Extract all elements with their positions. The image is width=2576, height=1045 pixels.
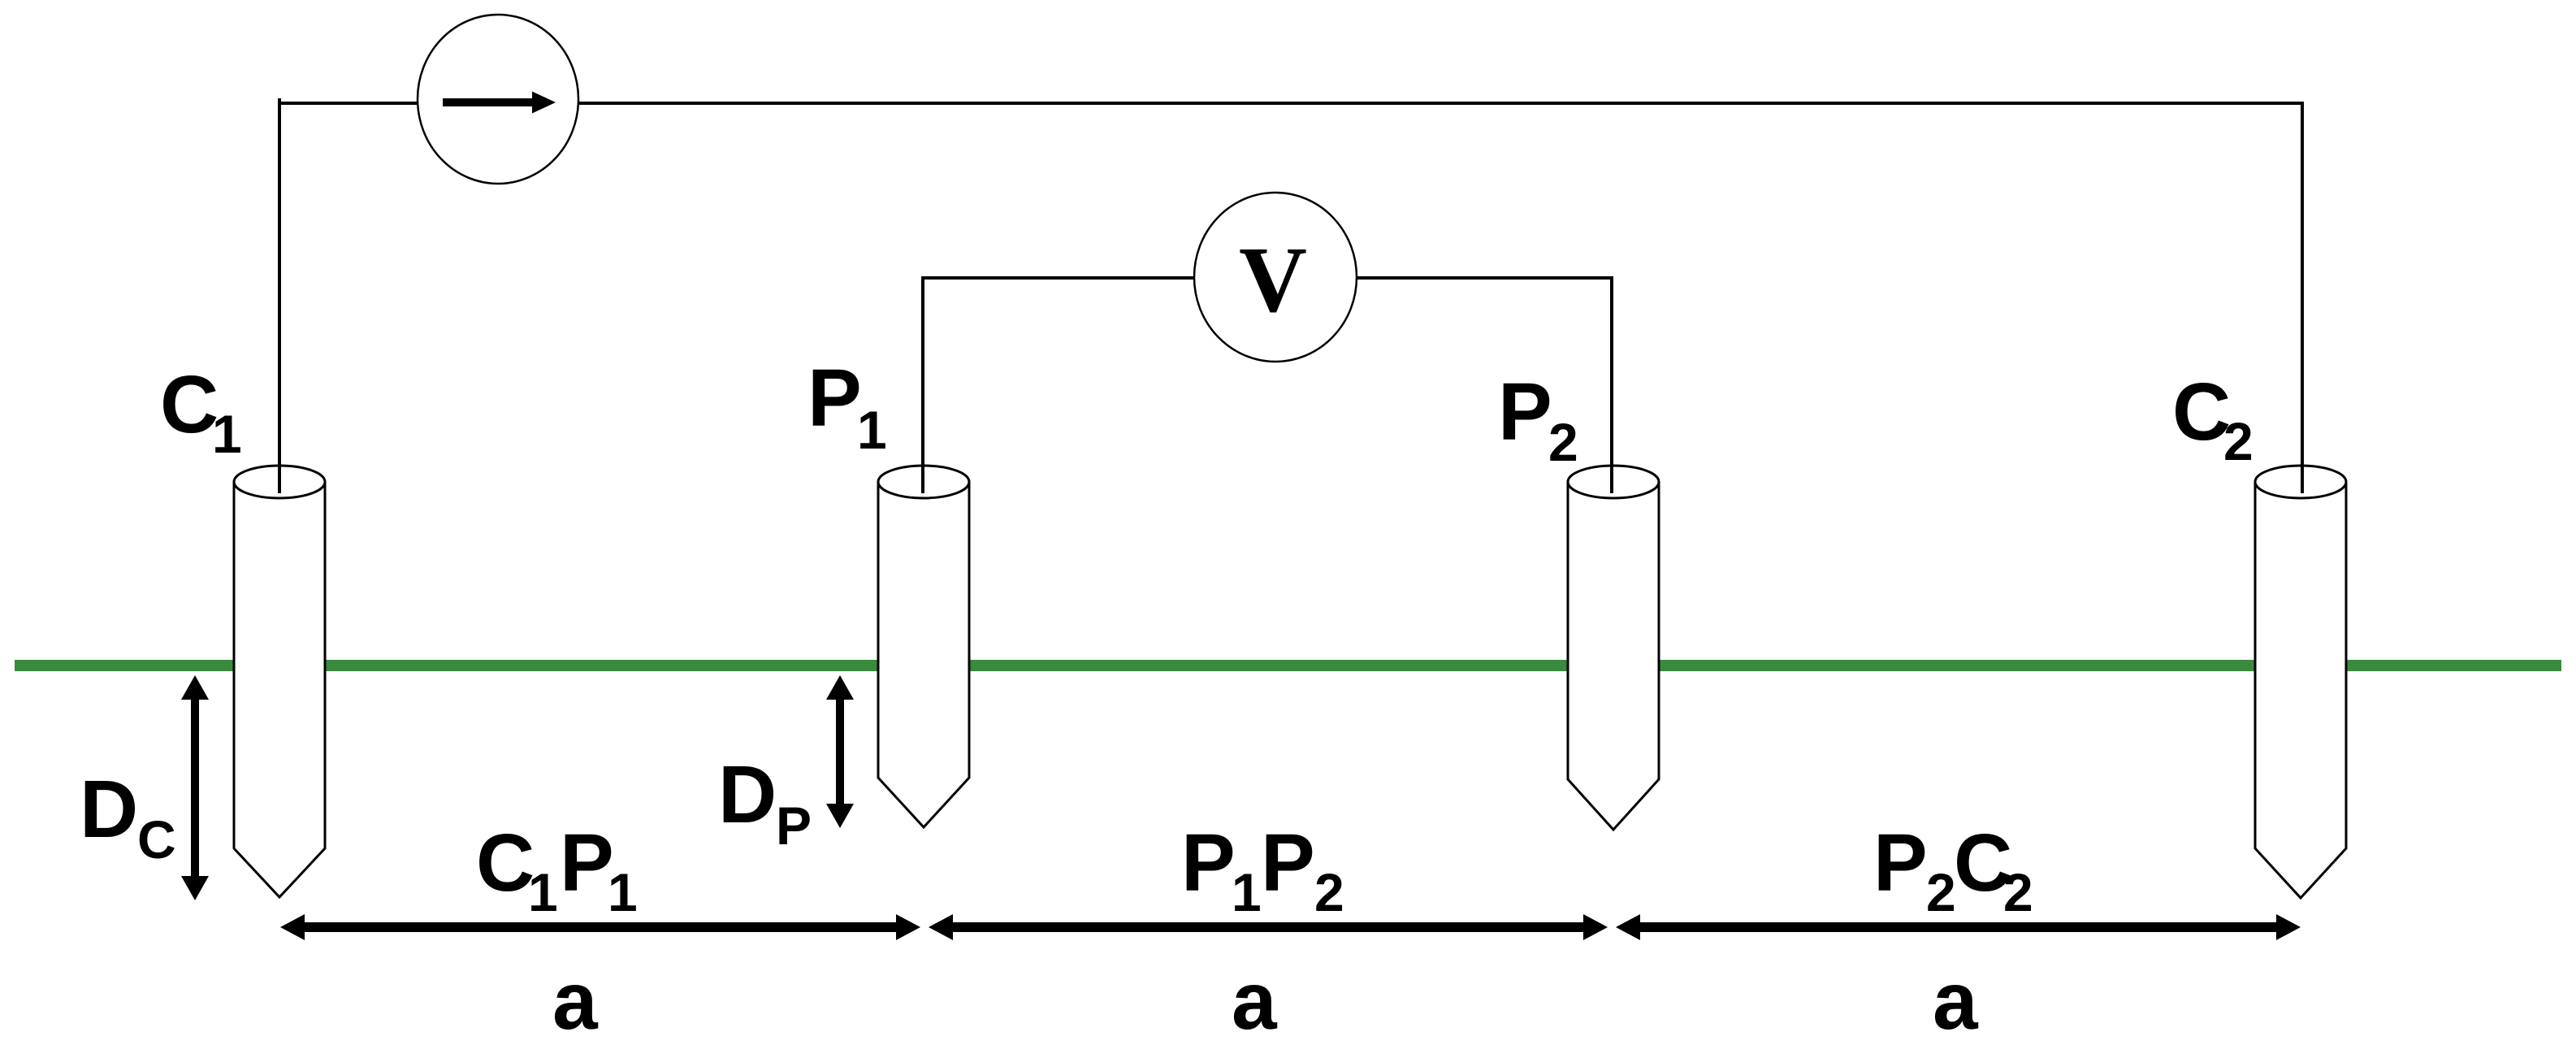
svg-text:1: 1 <box>528 862 558 922</box>
svg-text:1: 1 <box>1232 862 1262 922</box>
svg-text:C: C <box>160 359 219 450</box>
svg-text:2: 2 <box>1548 412 1578 472</box>
voltmeter circle U1 <box>1194 193 1357 362</box>
electrode C2 (current electrode, cylinder with tip) <box>2255 466 2346 898</box>
svg-text:a: a <box>552 956 599 1045</box>
ground / soil surface line <box>15 660 2561 671</box>
svg-text:2: 2 <box>1926 862 1956 922</box>
label C1 <box>160 359 242 464</box>
svg-text:2: 2 <box>1314 862 1344 922</box>
label P2C2 <box>1873 817 2033 922</box>
svg-text:1: 1 <box>857 400 887 460</box>
electrode P1 (potential electrode, cylinder with tip) <box>878 466 969 827</box>
label P1 <box>807 353 887 460</box>
svg-text:2: 2 <box>2003 862 2033 922</box>
current source circle <box>418 15 578 184</box>
label DP <box>718 749 812 856</box>
svg-text:C: C <box>2172 366 2231 457</box>
current direction arrow <box>443 92 556 114</box>
wire voltmeter to P2 <box>1356 278 1612 493</box>
svg-text:P: P <box>1498 366 1552 457</box>
depth arrow DP (double headed vertical) <box>826 675 854 828</box>
svg-text:V: V <box>1239 228 1307 332</box>
label P2 <box>1498 366 1578 472</box>
label C1P1 <box>476 817 638 922</box>
svg-text:D: D <box>80 764 138 855</box>
svg-text:P: P <box>807 353 862 444</box>
svg-text:P: P <box>1873 817 1928 908</box>
label C2 <box>2172 366 2253 471</box>
depth arrow DC (double headed vertical) <box>181 675 209 900</box>
label DC <box>80 764 176 869</box>
svg-text:C: C <box>137 809 176 869</box>
electrode P2 (potential electrode, cylinder with tip) <box>1568 466 1659 830</box>
svg-text:a: a <box>1232 956 1278 1045</box>
svg-text:a: a <box>1933 956 1979 1045</box>
svg-text:P: P <box>560 817 614 908</box>
svg-text:P: P <box>1261 817 1315 908</box>
svg-text:P: P <box>1181 817 1236 908</box>
label P1P2 <box>1181 817 1344 922</box>
dimension arrow P1P2 <box>929 914 1608 940</box>
svg-text:C: C <box>476 817 535 908</box>
svg-text:D: D <box>718 749 777 840</box>
svg-text:1: 1 <box>608 862 638 922</box>
dimension arrow C1P1 <box>280 914 920 940</box>
dimension arrow P2C2 <box>1616 914 2301 940</box>
svg-text:P: P <box>776 796 812 856</box>
svg-text:1: 1 <box>212 404 242 464</box>
wire P1 to voltmeter <box>923 278 1194 493</box>
wire current source to C2 <box>578 103 2302 493</box>
wire C1 to current source <box>279 98 417 493</box>
electrode C1 (current electrode, cylinder with tip) <box>234 466 325 897</box>
svg-text:2: 2 <box>2223 411 2253 471</box>
